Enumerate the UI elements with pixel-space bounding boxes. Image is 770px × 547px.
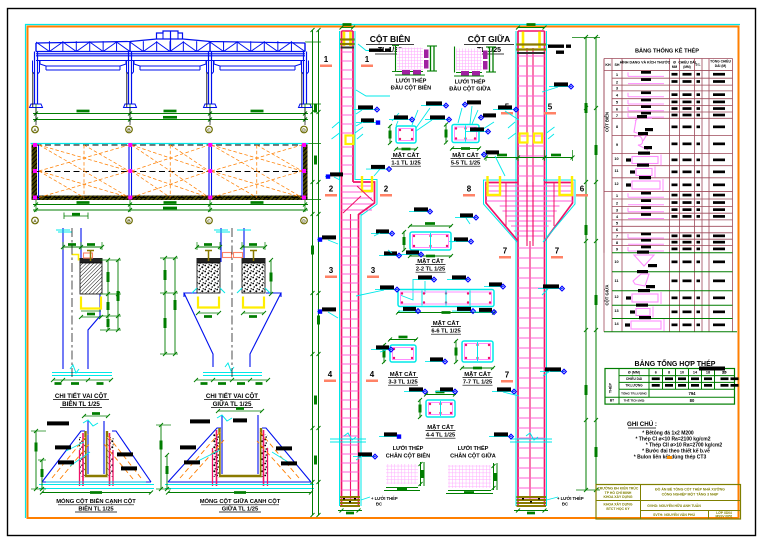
svg-text:BIÊN TL 1/25: BIÊN TL 1/25 <box>62 400 100 408</box>
column Cot Bien: ties corbel <box>342 185 373 187</box>
svg-text:SVTH: NGUYỄN VĂN PHÚ: SVTH: NGUYỄN VĂN PHÚ <box>653 512 695 517</box>
svg-text:B: B <box>127 127 131 133</box>
svg-text:CỘT GIỮA: CỘT GIỮA <box>605 285 610 306</box>
svg-text:MẶT CẮT: MẶT CẮT <box>393 151 420 159</box>
column Cot Bien: ties lower <box>342 219 359 221</box>
corbel detail 1: black centre line <box>71 228 73 380</box>
section 1-1 <box>396 126 416 143</box>
column Cot Bien: corbel yellow channel <box>362 176 372 191</box>
svg-text:2: 2 <box>329 185 334 194</box>
svg-text:C: C <box>207 218 211 224</box>
svg-text:MẶT CẮT: MẶT CẮT <box>433 319 460 327</box>
foundation 2: speckle pocket walls <box>213 434 219 477</box>
foundation 1: magenta anchor bars <box>82 433 84 486</box>
svg-text:CÔNG NGHIỆP MỘT TẦNG 3 NHỊP: CÔNG NGHIỆP MỘT TẦNG 3 NHỊP <box>662 492 719 497</box>
column Cot Bien: ties upper <box>342 51 354 53</box>
svg-text:THÉP: THÉP <box>608 382 613 393</box>
svg-text:A: A <box>33 218 37 224</box>
foundation 1: speckle pocket walls <box>79 437 85 477</box>
svg-text:ĐẦU CỘT GIỮA: ĐẦU CỘT GIỮA <box>449 85 491 93</box>
foundation 2: orange dashed slope lines <box>180 430 222 478</box>
girder underside <box>40 61 126 67</box>
svg-text:KHOA XÂY DỰNG: KHOA XÂY DỰNG <box>604 502 633 507</box>
mesh dau cot giua <box>456 49 482 71</box>
svg-text:GVHD: NGUYỄN HỮU ANH TUẤN: GVHD: NGUYỄN HỮU ANH TUẤN <box>647 503 701 508</box>
svg-text:22: 22 <box>722 371 726 375</box>
svg-text:TRƯỜNG ĐH KIẾN TRÚC: TRƯỜNG ĐH KIẾN TRÚC <box>598 486 639 491</box>
svg-text:CHÂN CỘT GIỮA: CHÂN CỘT GIỮA <box>450 452 496 460</box>
plan orange bracing <box>83 145 85 198</box>
svg-text:10: 10 <box>680 371 684 375</box>
svg-text:* Bước đai theo thiết kế b.vẽ: * Bước đai theo thiết kế b.vẽ <box>642 448 710 455</box>
svg-text:8: 8 <box>668 371 670 375</box>
svg-text:MẶT CẮT: MẶT CẮT <box>427 423 454 431</box>
foundation 2: black labels <box>190 419 210 423</box>
column Cot Giua: ties <box>518 55 545 57</box>
svg-text:4: 4 <box>370 370 375 379</box>
svg-text:D: D <box>302 218 306 224</box>
svg-text:MÓNG CỘT GIỮA CẠNH CỘT: MÓNG CỘT GIỮA CẠNH CỘT <box>200 497 281 505</box>
foundation 1: black labels <box>47 421 69 425</box>
corbel detail 1: yellow channel <box>81 297 101 309</box>
svg-text:1: 1 <box>324 55 329 64</box>
foundation 2: cyan leaders <box>196 450 220 462</box>
svg-text:7: 7 <box>503 247 508 256</box>
roof monitor <box>157 31 183 39</box>
svg-text:Ø: Ø <box>673 61 676 65</box>
column Cot Giua: bottom olive bands <box>517 496 547 498</box>
long vertical dimension lines (right of col giua) <box>585 37 587 490</box>
svg-text:7-7 TL 1/25: 7-7 TL 1/25 <box>463 380 492 386</box>
svg-text:GIỮA TL 1/25: GIỮA TL 1/25 <box>222 506 259 513</box>
plan magenta node squares <box>33 143 37 147</box>
column Cot Bien: top olive bands <box>340 38 355 40</box>
column Cot Bien: cyan outline <box>339 31 341 506</box>
svg-text:LƯỚI THÉP: LƯỚI THÉP <box>396 77 427 85</box>
column Cot Giua: magenta shaft <box>517 31 519 506</box>
long vertical dimension lines (left of middle columns) <box>312 30 314 515</box>
svg-text:+ LƯỚI THÉP: + LƯỚI THÉP <box>557 496 584 501</box>
svg-text:KH: KH <box>605 63 611 67</box>
trapezoid vertical rebar <box>526 182 528 246</box>
svg-text:CHIỀU DÀI: CHIỀU DÀI <box>678 60 695 65</box>
svg-text:CHIỀU DÀI: CHIỀU DÀI <box>626 376 642 381</box>
corbel detail 2: green dim ladder left <box>164 258 166 354</box>
svg-text:KHOA XÂY DỰNG: KHOA XÂY DỰNG <box>604 494 633 499</box>
leader labels <box>353 109 377 111</box>
svg-text:CHI TIẾT VAI CỘT: CHI TIẾT VAI CỘT <box>206 392 258 400</box>
corbel detail 1: hatched beam block <box>80 258 103 263</box>
svg-text:MẶT CẮT: MẶT CẮT <box>452 151 479 159</box>
svg-text:1: 1 <box>365 55 370 64</box>
elevation columns <box>34 52 36 105</box>
column Cot Bien: cyan break at y=440 <box>330 439 366 442</box>
corbel detail 2: top dims <box>197 246 220 248</box>
foundation 1: column above <box>87 421 89 474</box>
svg-text:ĐẦU CỘT BIÊN: ĐẦU CỘT BIÊN <box>391 84 431 92</box>
steel schedule table grid <box>603 59 605 253</box>
column Cot Giua: cyan break at y=440 <box>510 439 552 442</box>
corbel detail 2: under-channel dims <box>198 312 219 314</box>
svg-text:S.L: S.L <box>695 63 700 67</box>
svg-text:B: B <box>127 218 131 224</box>
svg-text:MSSV 0851: MSSV 0851 <box>715 515 732 519</box>
svg-text:CHI TIẾT VAI CỘT: CHI TIẾT VAI CỘT <box>55 392 107 400</box>
svg-text:TỔNG TR.LƯỢNG: TỔNG TR.LƯỢNG <box>621 391 647 396</box>
trapezoid yellow channels <box>488 176 501 195</box>
mesh dau cot bien <box>397 48 423 70</box>
svg-text:BIÊN TL 1/25: BIÊN TL 1/25 <box>78 505 114 513</box>
svg-text:MÓNG CỘT BIÊN CẠNH CỘT: MÓNG CỘT BIÊN CẠNH CỘT <box>56 497 136 505</box>
foundation 2: blue outline <box>168 428 311 482</box>
corbel detail 1: column outline <box>62 228 64 369</box>
svg-text:LƯỚI THÉP: LƯỚI THÉP <box>393 444 424 452</box>
svg-text:18: 18 <box>706 371 710 375</box>
svg-text:ĐỒ ÁN BÊ TÔNG CỐT THÉP NHÀ XƯỞ: ĐỒ ÁN BÊ TÔNG CỐT THÉP NHÀ XƯỞNG <box>655 487 725 492</box>
frame elevation: roof truss <box>36 39 305 43</box>
svg-text:A: A <box>33 127 37 133</box>
svg-text:3: 3 <box>329 266 334 275</box>
column Cot Bien: bottom olive bands <box>340 496 360 498</box>
svg-text:1-1 TL 1/25: 1-1 TL 1/25 <box>391 161 420 167</box>
svg-text:4: 4 <box>328 370 333 379</box>
corbel detail 2: cyan bits <box>192 288 270 293</box>
svg-text:8: 8 <box>467 185 472 194</box>
svg-text:794: 794 <box>689 391 697 396</box>
foundation 2: magenta anchor bars <box>216 430 218 486</box>
svg-text:7: 7 <box>505 371 510 380</box>
elevation dimension lines <box>33 113 308 115</box>
svg-text:GHI CHÚ :: GHI CHÚ : <box>627 421 657 428</box>
plan blue column lines <box>38 145 40 200</box>
svg-text:4-4 TL 1/25: 4-4 TL 1/25 <box>426 433 455 439</box>
trapezoid horizontal hatch <box>486 185 573 187</box>
section 6-6 <box>398 290 494 307</box>
svg-text:6: 6 <box>655 371 657 375</box>
corbel detail 2: cyan break marks <box>214 230 251 232</box>
column Cot Giua: top olive bands <box>517 43 547 45</box>
corbel detail 2: base dim <box>196 379 268 381</box>
foundation 2: cyan base lines <box>165 484 314 486</box>
svg-text:BT: BT <box>610 399 614 403</box>
svg-text:GIỮA TL 1/25: GIỮA TL 1/25 <box>213 401 252 408</box>
corbel detail 1: olive anchor bolt <box>87 251 94 262</box>
column Cot Bien: corbel <box>353 182 375 215</box>
column Cot Bien: yellow stirrup ring <box>346 136 354 145</box>
svg-text:3: 3 <box>371 266 376 275</box>
svg-text:MẶT CẮT: MẶT CẮT <box>390 370 417 378</box>
plan dimension lines <box>33 204 308 206</box>
corbel detail 1: yellow angle <box>71 254 78 260</box>
svg-text:2-2 TL 1/25: 2-2 TL 1/25 <box>416 267 445 273</box>
svg-text:10: 10 <box>614 260 618 264</box>
truss panels <box>48 41 50 51</box>
column Cot Giua: top green dim <box>518 27 545 29</box>
column Cot Giua: mid yellow stirrups <box>520 134 528 143</box>
grid bubbles row 2 <box>32 217 39 224</box>
svg-text:CỘT BIÊN: CỘT BIÊN <box>605 112 610 132</box>
svg-text:13: 13 <box>614 309 618 313</box>
svg-text:C: C <box>207 127 211 133</box>
column Cot Bien: bottom green dim <box>338 510 362 512</box>
trapezoid top green dims <box>486 157 573 159</box>
svg-text:TỔNG CHIỀU: TỔNG CHIỀU <box>710 59 731 64</box>
title block frame <box>596 485 741 520</box>
corbel detail 2: centre line <box>231 228 233 380</box>
section 7-7 <box>462 341 493 362</box>
column Cot Giua: cyan outline <box>515 31 517 506</box>
svg-text:MẶT CẮT: MẶT CẮT <box>417 257 444 265</box>
svg-text:Ø (MM): Ø (MM) <box>628 371 641 375</box>
svg-text:12: 12 <box>614 295 618 299</box>
section 3-3 <box>390 345 416 362</box>
svg-text:ĐC: ĐC <box>376 502 382 507</box>
grid bubbles row 1 <box>35 108 37 126</box>
plan hatched border bands <box>32 145 38 200</box>
svg-text:80: 80 <box>690 398 695 403</box>
svg-text:+ LƯỚI THÉP: + LƯỚI THÉP <box>371 496 398 501</box>
corbel detail 1: cyan break marks <box>56 230 72 232</box>
column Cot Giua: trapezoid head <box>486 183 518 242</box>
svg-text:LƯỚI THÉP: LƯỚI THÉP <box>458 444 489 452</box>
column Cot Giua: bottom green dim <box>514 510 548 512</box>
plan centre dash lines <box>36 144 308 146</box>
foundation 1: orange dashed slope lines <box>52 434 88 478</box>
svg-text:TP HỒ CHÍ MINH: TP HỒ CHÍ MINH <box>605 490 632 495</box>
corbel detail 2: olive bolts <box>205 251 212 262</box>
svg-text:CỘT BIÊN: CỘT BIÊN <box>370 33 411 44</box>
column Cot Bien: top yellow bars <box>343 32 346 47</box>
svg-text:DÀI (M): DÀI (M) <box>715 63 727 68</box>
foundation 1: blue outline <box>42 431 151 482</box>
section 4-4 <box>426 400 455 417</box>
svg-text:BTCT HỌC KỲ: BTCT HỌC KỲ <box>606 506 630 511</box>
column Cot Bien: top green dim <box>342 27 354 29</box>
foundation 1: olive pocket <box>86 431 108 476</box>
section 5-5 <box>452 125 479 143</box>
svg-text:11: 11 <box>614 279 618 283</box>
corbel detail 1: green dims <box>63 246 102 248</box>
column Cot Giua: bottom leader + text <box>547 497 559 500</box>
svg-text:THỂ TÍCH (M3): THỂ TÍCH (M3) <box>624 398 645 403</box>
column Cot Giua: cyan break leaders y130 <box>508 122 516 139</box>
foundation 2: green dims <box>160 425 162 489</box>
svg-text:10: 10 <box>614 157 618 161</box>
svg-text:D: D <box>302 127 306 133</box>
column Cot Giua: top yellow bars <box>522 32 525 49</box>
corbel detail 2: column outline <box>220 228 222 262</box>
column Cot Bien: bottom leader + text <box>361 497 370 500</box>
svg-text:BẢNG THỐNG KÊ THÉP: BẢNG THỐNG KÊ THÉP <box>635 47 699 55</box>
leader to mesh <box>356 90 390 96</box>
svg-text:2: 2 <box>384 185 389 194</box>
section 2-2 <box>410 232 451 250</box>
svg-text:3-3 TL 1/25: 3-3 TL 1/25 <box>388 380 417 386</box>
svg-text:CHÂN CỘT BIÊN: CHÂN CỘT BIÊN <box>386 452 430 460</box>
summary table grid <box>605 369 735 405</box>
svg-text:MẶT CẮT: MẶT CẮT <box>464 370 491 378</box>
svg-text:6-6 TL 1/25: 6-6 TL 1/25 <box>431 329 460 335</box>
corbel detail 1: salmon plate <box>84 253 93 258</box>
corbel detail 2: right dim <box>270 260 272 294</box>
svg-text:LƯỚI THÉP: LƯỚI THÉP <box>455 78 486 86</box>
corbel detail 2: yellow channels <box>198 297 219 308</box>
foundation 1: cyan base lines <box>39 484 154 486</box>
column Cot Bien: magenta shaft <box>341 31 343 506</box>
svg-text:TR.LƯỢNG: TR.LƯỢNG <box>625 384 643 388</box>
svg-text:(MM): (MM) <box>683 65 690 69</box>
svg-text:7: 7 <box>555 247 560 256</box>
corbel detail 2: hatched blocks (speckled) <box>197 258 221 263</box>
foundation 1: cyan leaders <box>70 452 90 466</box>
svg-text:MM: MM <box>672 65 678 69</box>
svg-text:CỘT GIỮA: CỘT GIỮA <box>468 33 510 44</box>
svg-text:HÌNH DẠNG VÀ KÍCH THƯỚC: HÌNH DẠNG VÀ KÍCH THƯỚC <box>620 60 671 65</box>
leader top right <box>546 44 556 47</box>
svg-text:5: 5 <box>548 103 553 112</box>
foundation 2: column above <box>221 415 223 474</box>
svg-text:5-5 TL 1/25: 5-5 TL 1/25 <box>451 161 480 167</box>
svg-text:6: 6 <box>580 185 585 194</box>
foundation 1: green dims <box>35 431 37 489</box>
column Cot Bien: cyan break leaders y130 <box>332 122 340 139</box>
column Cot Bien: corbel diag rebar <box>357 186 373 201</box>
crane beam lines <box>36 53 305 55</box>
svg-text:11: 11 <box>614 169 618 173</box>
corbel detail 2: salmon plates <box>223 253 232 258</box>
plan top cyan line <box>31 143 309 145</box>
svg-text:12: 12 <box>614 182 618 186</box>
foundation 2: olive pocket <box>220 428 262 476</box>
svg-text:ĐC: ĐC <box>562 502 568 507</box>
